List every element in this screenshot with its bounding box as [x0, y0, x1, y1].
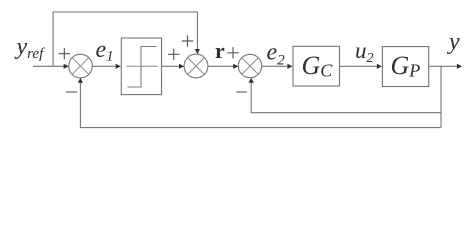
arrowhead into S3 — [233, 64, 238, 69]
wire S1 output to relay block — [92, 65, 117, 67]
plus sign at S2 top input — [182, 35, 193, 46]
svg-text:GC: GC — [302, 51, 334, 81]
plus sign at S3 left input — [227, 47, 238, 58]
arrowhead up into S1 bottom — [78, 78, 83, 83]
wire feedforward branch up from input line — [53, 12, 197, 66]
summing junction S1 circle — [69, 54, 93, 78]
summing junction S2 circle — [184, 54, 208, 78]
svg-text:r: r — [215, 38, 225, 63]
arrowhead up into S3 bottom — [249, 78, 254, 83]
summing junction S1 cross — [72, 58, 89, 75]
summing junction S3 circle — [238, 54, 261, 77]
arrowhead output y — [457, 64, 462, 69]
wire output drop for feedback — [440, 66, 442, 127]
arrowhead into GP — [377, 64, 382, 69]
wire input from y_ref to summing junction S1 — [33, 65, 65, 67]
relay characteristic step curve — [128, 47, 157, 88]
wire relay output to summing junction S2 — [162, 65, 181, 67]
wire inner feedback to S3 — [251, 82, 441, 113]
block GC — [293, 46, 340, 86]
arrowhead into GC — [287, 64, 292, 69]
svg-text:u2: u2 — [355, 38, 374, 66]
block GP — [382, 47, 428, 87]
arrowhead into relay block — [116, 64, 121, 69]
wire GC output u2 to block GP — [340, 65, 379, 67]
plus sign at S1 upper input — [59, 48, 70, 59]
svg-text:GP: GP — [391, 51, 421, 81]
svg-text:e2: e2 — [267, 39, 286, 68]
svg-text:e1: e1 — [96, 37, 114, 64]
arrowhead down into S2 top — [195, 49, 200, 54]
relay characteristic axis — [127, 65, 158, 67]
arrowhead into S2 — [179, 64, 184, 69]
svg-text:yref: yref — [15, 34, 46, 62]
wire GP output y — [429, 65, 459, 67]
minus sign at S1 lower input — [66, 91, 77, 93]
relay nonlinearity block — [121, 38, 161, 95]
minus sign at S3 lower input — [236, 91, 247, 93]
summing junction S2 cross — [188, 58, 205, 75]
wire S2 output r to summing junction S3 — [208, 65, 235, 67]
arrowhead into S1 — [64, 64, 69, 69]
summing junction S3 cross — [242, 58, 259, 75]
svg-text:y: y — [447, 29, 460, 55]
wire outer feedback to S1 — [80, 82, 441, 128]
wire S3 output e2 to block GC — [262, 65, 290, 67]
plus sign at S2 left input — [168, 49, 179, 60]
